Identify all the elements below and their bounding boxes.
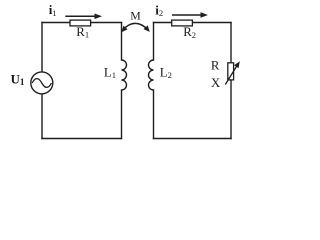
variable load resistor R X <box>225 61 240 84</box>
wire right-loop left upper <box>153 23 155 61</box>
inductor L2 <box>149 60 154 90</box>
svg-text:R1: R1 <box>76 25 89 40</box>
current arrow i2 <box>172 12 208 18</box>
svg-text:i2: i2 <box>155 2 163 18</box>
svg-text:M: M <box>130 9 141 23</box>
current arrow i1 <box>65 14 102 20</box>
wire left-loop top <box>42 22 122 24</box>
wire left-loop bottom <box>42 138 122 140</box>
wire left-loop right upper <box>121 23 123 61</box>
wire right-loop left lower <box>153 90 155 139</box>
svg-text:X: X <box>211 76 221 90</box>
wire left-loop left <box>41 23 43 139</box>
mutual coupling arrow M <box>121 23 149 32</box>
wire left-loop right lower <box>121 90 123 139</box>
wire right-loop bottom <box>154 138 232 140</box>
svg-text:i1: i1 <box>49 2 57 18</box>
resistor R2 <box>172 20 193 26</box>
resistor R1 <box>70 20 91 26</box>
svg-text:L2: L2 <box>160 66 172 81</box>
wire right-loop right <box>230 23 232 139</box>
svg-text:U1: U1 <box>11 73 25 87</box>
svg-text:R: R <box>211 58 220 72</box>
voltage source U1 <box>31 72 53 94</box>
inductor L1 <box>122 60 127 90</box>
svg-text:L1: L1 <box>104 65 116 80</box>
svg-text:R2: R2 <box>183 25 196 40</box>
wire right-loop top <box>154 22 232 24</box>
